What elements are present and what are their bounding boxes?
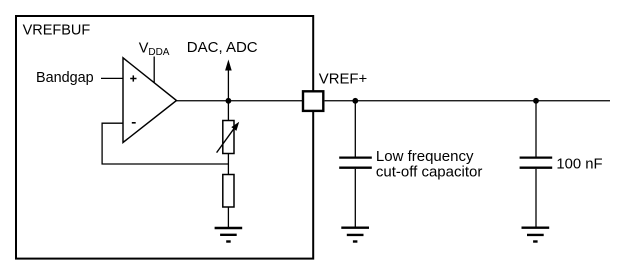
wire Bandgap to non-inverting input xyxy=(101,77,123,79)
op-amp + input symbol xyxy=(130,75,136,81)
wire variable resistor to resistor xyxy=(227,154,229,176)
wire VREF+ rail xyxy=(325,100,610,102)
svg-text:Bandgap: Bandgap xyxy=(36,70,94,86)
node junction capacitor C1 xyxy=(352,98,358,104)
wire up to DAC/ADC xyxy=(227,70,229,101)
capacitor C1 plates xyxy=(339,158,372,168)
svg-text:Low frequency: Low frequency xyxy=(376,148,474,165)
variable resistor arrow xyxy=(217,127,235,152)
arrowhead DAC/ADC xyxy=(225,60,232,71)
node junction capacitor C2 xyxy=(533,98,539,104)
ground under C1 xyxy=(341,228,369,242)
wire to capacitor C1 xyxy=(354,101,356,157)
wire VDDA supply xyxy=(153,57,155,83)
ground under resistor xyxy=(215,228,243,242)
svg-text:DAC, ADC: DAC, ADC xyxy=(187,39,258,56)
variable resistor body xyxy=(223,121,234,154)
wire capacitor C2 to ground xyxy=(535,169,537,227)
op-amp - input symbol xyxy=(132,122,136,124)
wire resistor to ground xyxy=(227,207,229,227)
svg-text:cut-off capacitor: cut-off capacitor xyxy=(376,164,482,181)
wire op-amp output xyxy=(176,100,302,102)
node junction output xyxy=(226,98,232,104)
ground under C2 xyxy=(522,228,550,242)
wire junction to variable resistor xyxy=(227,101,229,121)
pin pad VREF+ xyxy=(303,91,323,111)
resistor body xyxy=(223,175,234,208)
svg-text:100 nF: 100 nF xyxy=(556,156,602,172)
capacitor C2 plates xyxy=(520,158,553,168)
wire capacitor C1 to ground xyxy=(354,169,356,227)
svg-text:VREF+: VREF+ xyxy=(319,71,367,87)
svg-text:VREFBUF: VREFBUF xyxy=(23,22,91,38)
wire to capacitor C2 xyxy=(535,101,537,157)
VREFBUF block outline xyxy=(16,16,313,259)
op-amp U1 xyxy=(123,58,177,143)
wire feedback loop xyxy=(102,123,228,164)
